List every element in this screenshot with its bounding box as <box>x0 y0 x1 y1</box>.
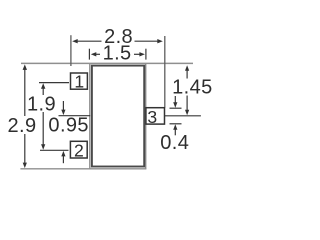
tick 1.5 right (body right edge) <box>145 49 147 60</box>
arrowhead 1.5 right <box>139 52 145 56</box>
dimension line 1.45 upper segment <box>186 70 188 79</box>
tick 0.4 top (pin 3 upper edge) <box>170 107 182 109</box>
dimension 0.4 upper arrow shaft <box>174 96 176 104</box>
svg-text:0.95: 0.95 <box>48 115 89 137</box>
arrowhead 2.9 down <box>23 163 27 169</box>
pin 3 center leader line right of body <box>165 115 201 117</box>
dimension line 1.5 left segment <box>95 53 101 55</box>
pin 3 pad box <box>146 108 165 124</box>
arrowhead 0.95 down at pin 3 center line <box>61 110 65 116</box>
svg-text:2: 2 <box>74 141 84 161</box>
arrowhead 1.5 left <box>91 52 97 56</box>
pin 1 pad box <box>71 73 88 89</box>
svg-text:1: 1 <box>74 72 84 92</box>
svg-text:3: 3 <box>147 107 157 127</box>
pin 2 center leader line <box>40 149 69 151</box>
arrowhead 2.9 up <box>23 64 27 70</box>
left extension line (pin 1 outer edge) <box>70 35 72 66</box>
pin 1 center leader line <box>39 82 69 84</box>
arrowhead 2.8 left <box>72 39 78 43</box>
package body outer outline (light) with extension lines top and seating line bottom <box>20 63 193 168</box>
body outer right edge <box>145 63 147 168</box>
arrowhead 0.95 up at pin 2 center line <box>61 151 65 157</box>
svg-text:1.9: 1.9 <box>27 93 56 115</box>
arrowhead 0.4 down at pin 3 upper edge <box>173 102 177 108</box>
arrowhead 1.9 down <box>41 144 45 150</box>
body outer left edge <box>89 63 91 168</box>
dimension line 1.9 upper segment <box>42 87 44 95</box>
arrowhead 1.45 up <box>185 65 189 71</box>
dimension 0.95 lower arrow shaft <box>62 156 64 164</box>
arrowhead 2.8 right <box>157 39 163 43</box>
extension lines for 2.8 dimension <box>71 35 165 107</box>
top edge extension line <box>21 62 193 64</box>
arrowhead 1.9 up <box>41 83 45 89</box>
dimension line 1.9 lower segment <box>42 112 44 146</box>
dimension 0.95 upper arrow shaft <box>62 101 64 111</box>
pin 2 pad box <box>70 141 87 158</box>
tick 0.4 bottom (pin 3 lower edge) <box>170 123 182 125</box>
svg-text:1.45: 1.45 <box>172 76 213 98</box>
dimension line 2.8 right segment <box>135 40 159 42</box>
dimension line 2.9 lower segment <box>24 134 26 165</box>
svg-text:1.5: 1.5 <box>103 43 132 65</box>
arrowhead 0.4 up at pin 3 lower edge <box>173 124 177 130</box>
seating line / bottom edge extension line <box>20 168 146 170</box>
svg-text:0.4: 0.4 <box>160 132 189 154</box>
dimension line 1.45 lower segment <box>186 96 188 111</box>
svg-text:2.9: 2.9 <box>7 115 36 137</box>
dimension line 2.8 left segment <box>77 40 102 42</box>
arrowhead 1.45 down <box>185 110 189 116</box>
dimension line 2.9 upper segment <box>24 68 26 116</box>
dimension line 1.5 right segment <box>134 53 141 55</box>
dimension 0.4 lower arrow shaft <box>174 129 176 136</box>
pin 3 center line left of body <box>59 115 91 117</box>
package body inner outline (dark) <box>92 66 144 167</box>
tick 1.5 left (body left edge) <box>88 49 90 60</box>
right extension line (pin 3 outer edge) <box>164 36 166 108</box>
